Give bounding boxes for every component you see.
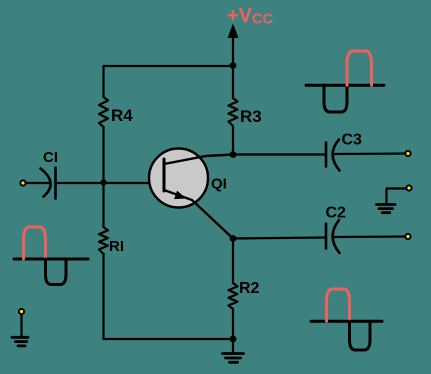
- svg-text:C2: C2: [326, 205, 347, 222]
- svg-text:QI: QI: [211, 176, 227, 193]
- svg-text:RI: RI: [109, 238, 124, 255]
- svg-text:C3: C3: [342, 132, 363, 149]
- svg-text:R2: R2: [239, 280, 260, 297]
- svg-text:CI: CI: [43, 149, 58, 166]
- svg-text:R3: R3: [240, 107, 262, 126]
- svg-text:R4: R4: [111, 106, 133, 125]
